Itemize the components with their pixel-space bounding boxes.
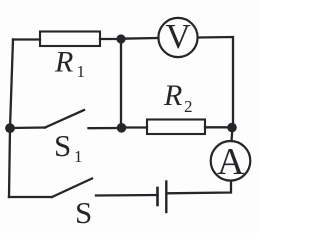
wire: middle vertical branch (top node down to R2 node) (120, 39, 122, 128)
node: right junction (R2 / ammeter) (227, 123, 237, 133)
resistor R1 (40, 32, 100, 47)
battery BT1 negative plate (short) (156, 188, 159, 205)
ammeter U2 (A) (211, 141, 251, 181)
svg-text:V: V (166, 17, 191, 56)
wire: left vertical side (9, 40, 13, 198)
wire: bottom-left segment (corner to switch S pivot) (9, 196, 52, 198)
node: left side junction (5, 123, 15, 133)
switch S blade (52, 179, 92, 198)
svg-text:S: S (54, 128, 71, 163)
node: top junction (116, 34, 125, 43)
voltmeter U1 (V) (158, 18, 197, 57)
battery BT1 positive plate (long) (165, 182, 167, 213)
wire: voltmeter to top-right corner and down right side (199, 37, 234, 127)
wire: ammeter bottom down and left to battery positive (167, 181, 231, 193)
svg-text:R: R (163, 79, 182, 112)
wire: battery negative to switch S contact (96, 194, 158, 197)
svg-text:S: S (75, 195, 92, 230)
svg-text:2: 2 (184, 97, 193, 116)
switch S1 blade (45, 110, 84, 128)
svg-text:1: 1 (74, 147, 83, 166)
wire: switch S1 contact to R2 node (89, 127, 122, 129)
wire: R2 node to R2 box (122, 126, 148, 128)
resistor R2 (147, 120, 205, 135)
node: left R2 junction (117, 123, 127, 133)
svg-text:1: 1 (77, 62, 86, 81)
wire: R1 to top node (100, 38, 121, 40)
svg-text:R: R (54, 46, 73, 79)
svg-text:A: A (217, 141, 245, 183)
wire: top node to voltmeter (121, 37, 158, 40)
wire: left node to switch S1 pivot (10, 126, 45, 129)
wire: right node down to ammeter (232, 128, 233, 142)
wire: R2 box to right node (205, 126, 232, 128)
wire: top-left segment (corner to R1) (13, 38, 40, 40)
